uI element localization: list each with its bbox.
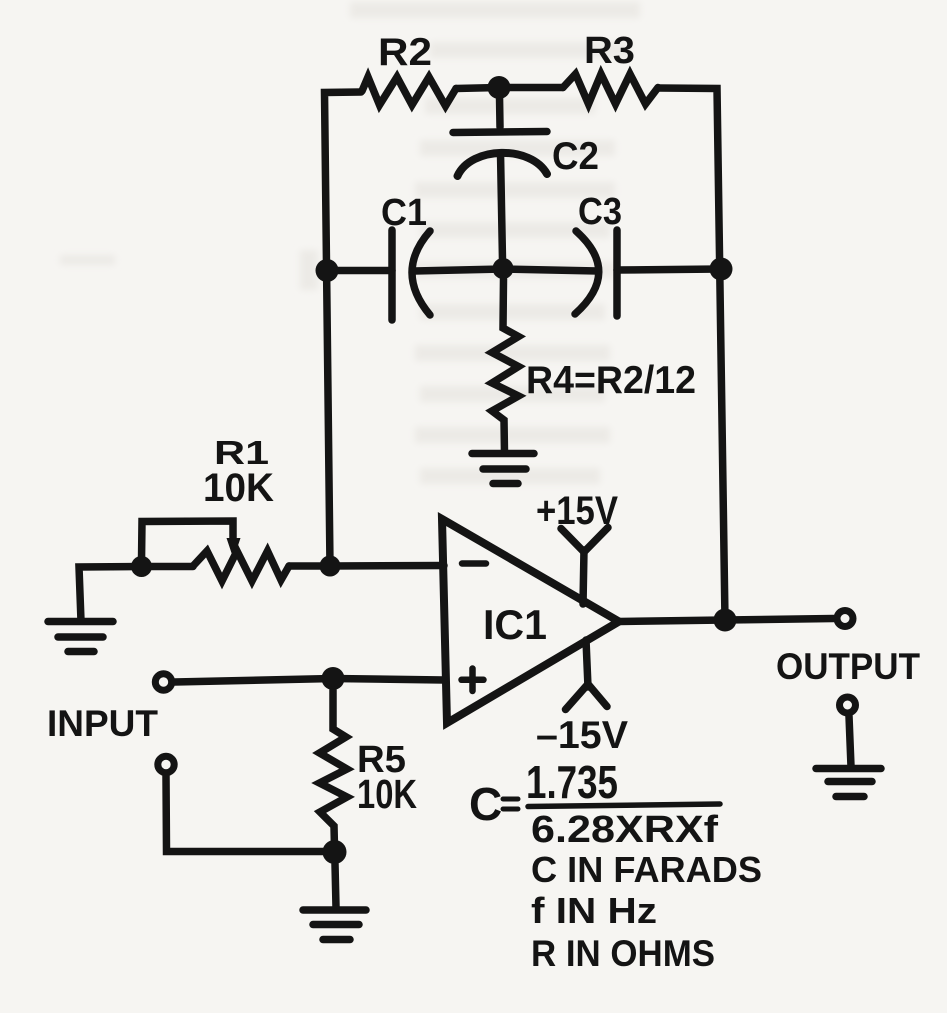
- svg-text:1.735: 1.735: [526, 756, 618, 808]
- minus sign (inverting input): [462, 560, 486, 567]
- svg-text:R2: R2: [378, 31, 432, 74]
- svg-text:C1: C1: [381, 192, 427, 234]
- wire top-left segment and left vertical: [325, 92, 362, 566]
- capacitor C3: [575, 230, 617, 316]
- svg-text:OUTPUT: OUTPUT: [776, 646, 920, 687]
- node twin-T right: [710, 258, 733, 281]
- svg-text:INPUT: INPUT: [47, 703, 158, 744]
- -15V supply fork: [566, 640, 608, 710]
- terminal input upper: [155, 674, 171, 690]
- op-amp IC1: [442, 519, 619, 723]
- svg-text:6.28XRXf: 6.28XRXf: [531, 809, 718, 851]
- terminal output: [837, 611, 853, 627]
- svg-text:C3: C3: [578, 191, 622, 233]
- node R5 bottom: [323, 840, 347, 864]
- svg-text:IC1: IC1: [483, 601, 547, 648]
- wire op-amp output: [619, 619, 834, 622]
- svg-text:f IN Hz: f IN Hz: [531, 890, 657, 931]
- capacitor C1: [392, 230, 430, 320]
- node R5 top: [322, 667, 345, 690]
- wire non-inverting input: [175, 679, 445, 683]
- ground (below R4): [472, 454, 534, 484]
- svg-text:R4=R2/12: R4=R2/12: [526, 359, 696, 402]
- wire output ground stem: [849, 716, 851, 767]
- fraction bar: [528, 804, 720, 807]
- svg-text:10K: 10K: [357, 771, 417, 817]
- resistor R5: [320, 690, 348, 848]
- resistor R4: [492, 279, 519, 453]
- node top (R2/R3/C2 junction): [488, 76, 511, 99]
- svg-text:C: C: [469, 778, 502, 830]
- wire C3 to right rail: [617, 269, 721, 270]
- wire center node to C3: [503, 269, 598, 271]
- resistor R3: [563, 74, 658, 104]
- svg-text:R IN OHMS: R IN OHMS: [531, 933, 715, 974]
- terminal input lower: [158, 756, 174, 772]
- ground (R5): [303, 910, 366, 940]
- wire R1 left to ground corner: [79, 567, 193, 622]
- wire lower input to R5 bottom node: [166, 776, 334, 852]
- node R1 left: [131, 556, 152, 577]
- node twin-T left: [316, 259, 339, 282]
- node output: [714, 609, 737, 632]
- plus sign (non-inverting input): [462, 669, 484, 692]
- svg-text:10K: 10K: [203, 466, 274, 510]
- resistor R2: [362, 77, 456, 106]
- resistor R1 potentiometer: [193, 551, 289, 581]
- wire top-right segment and right vertical: [658, 88, 725, 620]
- +15V supply fork: [561, 528, 608, 605]
- node feedback (R1 right): [320, 556, 341, 577]
- ground (left, R1): [48, 622, 113, 652]
- wire R1 to inverting input: [289, 562, 444, 570]
- wire C1 to center node: [414, 269, 503, 271]
- svg-text:–15V: –15V: [536, 714, 628, 757]
- wiper arrow R1: [142, 521, 234, 561]
- svg-text:C2: C2: [552, 135, 599, 178]
- svg-text:C IN FARADS: C IN FARADS: [531, 849, 762, 890]
- node twin-T center: [493, 258, 514, 279]
- svg-text:+15V: +15V: [536, 489, 618, 533]
- ground (output): [816, 769, 881, 797]
- terminal output ground: [840, 697, 856, 713]
- svg-text:R3: R3: [584, 30, 635, 72]
- wire twin-T bottom rail left: [327, 267, 392, 275]
- wire R5 bottom to ground: [335, 864, 336, 907]
- capacitor C2: [453, 96, 547, 260]
- wire R2 to R3 across top node: [456, 88, 563, 89]
